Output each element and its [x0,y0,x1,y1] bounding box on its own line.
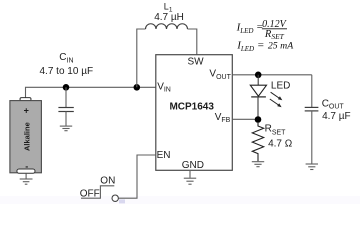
inductor L1 [146,24,188,29]
svg-text:4.7 to 10 µF: 4.7 to 10 µF [40,66,94,77]
wire: EN to switch [119,155,156,198]
switch lavender artifact [119,199,125,203]
formula ILED = 0.12V/RSET [236,19,288,41]
svg-text:ILED: ILED [236,21,254,35]
capacitor COUT [305,107,319,111]
wire: VOUT rail [232,74,311,76]
wire: COUT branch [311,75,313,107]
ground (CIN) [60,126,72,131]
node CIN junction [63,84,70,91]
wire: VFB [232,118,258,120]
svg-text:4.7 Ω: 4.7 Ω [268,139,293,150]
ground (COUT) [306,164,318,170]
svg-text:+: + [24,106,29,116]
svg-text:OFF: OFF [80,189,100,200]
ground (GND pin) [189,170,191,178]
battery bottom cap [17,169,35,173]
resistor RSET [252,123,263,162]
node VFB junction [255,116,262,123]
svg-text:SW: SW [187,57,204,68]
wire: COUT lower [311,111,313,164]
svg-text:COUT: COUT [322,98,345,110]
svg-text:CIN: CIN [59,52,73,65]
wire: L1 left leg [137,29,146,87]
LED arrow 2 [270,99,282,107]
bottom faint lavender band [0,196,360,204]
battery top cap [20,98,31,101]
LED arrow 1 [271,92,283,100]
wire: battery - to ground [25,173,27,179]
svg-text:EN: EN [157,150,171,161]
svg-text:LED: LED [271,81,290,92]
battery body [10,101,42,173]
ground (RSET) [252,162,264,167]
switch contacts ON/OFF [81,186,114,198]
svg-text:4.7 µH: 4.7 µH [154,12,184,23]
node L1 junction [134,84,141,91]
svg-text:RSET: RSET [264,29,285,41]
svg-text:4.7 µF: 4.7 µF [322,111,351,122]
svg-text:ILED: ILED [236,40,254,54]
wire: CIN branch lower [65,112,67,126]
svg-text:ON: ON [100,176,115,187]
ground (battery) [20,179,33,184]
svg-text:= 25 mA: = 25 mA [257,40,294,52]
capacitor CIN [58,108,73,112]
wire: CIN branch upper [65,87,67,107]
svg-text:GND: GND [182,160,204,171]
LED D1 [257,75,259,86]
IC U1 MCP1643 [156,55,233,171]
svg-text:Alkaline: Alkaline [23,122,32,151]
wire: L1 right leg to SW [188,29,197,55]
switch circle [112,195,118,201]
node LED anode [255,72,262,79]
svg-text:MCP1643: MCP1643 [169,101,214,112]
svg-text:RSET: RSET [265,124,287,137]
wire: battery + up and main input rail [26,87,156,98]
